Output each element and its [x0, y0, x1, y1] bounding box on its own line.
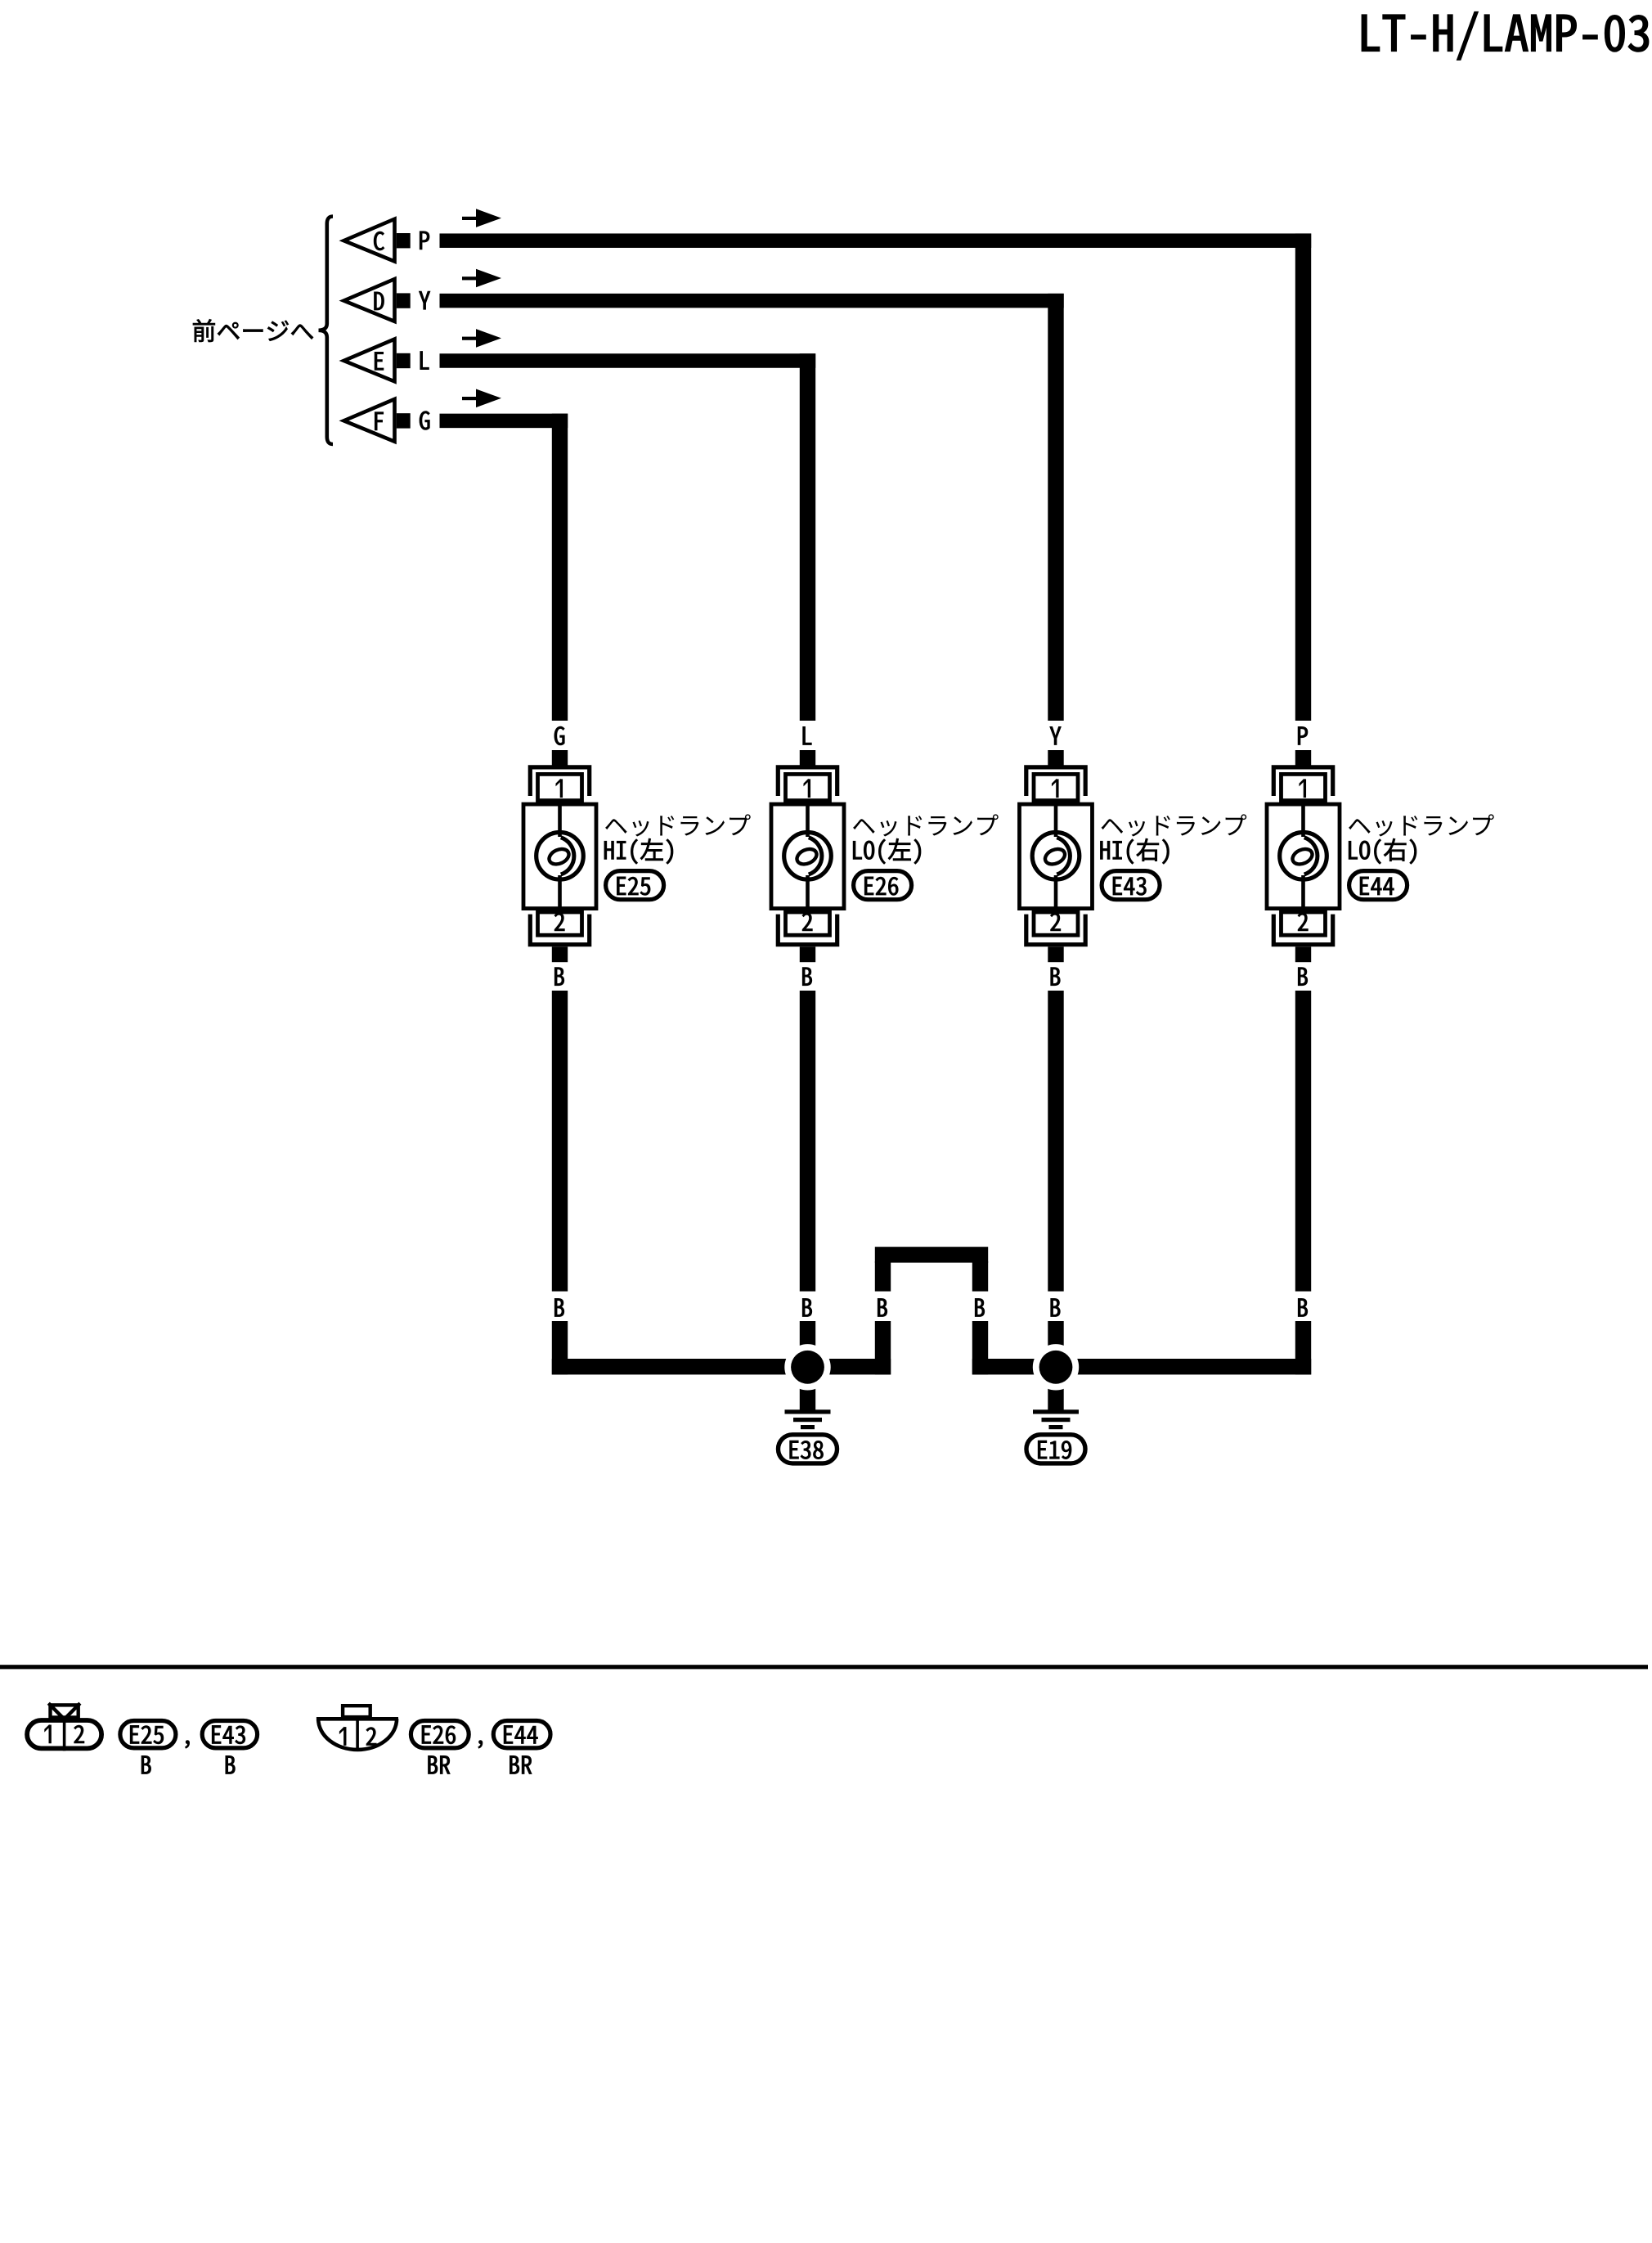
arrow marker row E: [462, 329, 501, 348]
label ヘッドランプ for E43: [1102, 814, 1247, 836]
label LO(右) for E44: [1349, 838, 1416, 864]
brace 前ページへ: [319, 217, 334, 445]
wire color label P at triangle: [420, 231, 429, 249]
wire column 3 below connector (B): [1048, 991, 1063, 1292]
arrow marker row C: [462, 209, 501, 227]
ground bus left segment: [552, 1359, 891, 1374]
wire G horizontal run: [440, 414, 568, 429]
wire L vertical drop to headlamp column: [800, 353, 815, 721]
B label at ground bus column 2: [802, 1298, 811, 1316]
connector E26 pin 2 stub: [800, 946, 815, 962]
junction dot E19 net: [1033, 1344, 1079, 1390]
label HI(右) for E43: [1100, 838, 1169, 864]
wire L horizontal run: [440, 353, 816, 368]
wire column 1 below connector (B): [552, 991, 568, 1292]
wire color label P above connector E44: [1298, 726, 1308, 744]
wire P horizontal run: [440, 233, 1312, 248]
legend label E25: [120, 1721, 176, 1748]
legend label E43: [202, 1721, 257, 1748]
wire color label L above connector E26: [803, 726, 812, 744]
triangle C stub to wire: [397, 233, 411, 248]
arrow marker row F: [462, 389, 501, 408]
connector E44 pin 2 stub: [1295, 946, 1311, 962]
wire G vertical drop to headlamp column: [552, 414, 568, 721]
wire column 2 below connector (B): [800, 991, 815, 1292]
B label below E43: [1051, 968, 1060, 986]
headlamp E26: [771, 767, 844, 945]
off-page connector triangle C: [339, 216, 397, 264]
headlamp E25: [523, 767, 596, 945]
connector label E44: [1349, 871, 1407, 900]
connector label E43: [1102, 871, 1160, 900]
legend B below E25: [141, 1755, 150, 1773]
wire Y horizontal run: [440, 294, 1064, 308]
triangle F stub to wire: [397, 413, 411, 428]
connector label E26: [854, 871, 912, 900]
off-page connector triangle F: [339, 396, 397, 444]
wire ground drop E19: [1048, 1376, 1063, 1412]
wire color label G above connector E25: [554, 726, 564, 745]
wire column 4 below connector (B): [1295, 991, 1311, 1292]
wire P vertical drop to headlamp column: [1295, 233, 1311, 721]
label 前ページへ: [193, 319, 313, 342]
B label below E25: [554, 968, 563, 986]
B label at ground bus column 3: [1051, 1298, 1060, 1316]
comma: [186, 1741, 190, 1749]
wire column 4 lower segment to ground bus: [1295, 1321, 1311, 1374]
bridge jog between ground nets: [875, 1247, 988, 1374]
legend connector icon E26/E44 (female 2-pin): [316, 1706, 398, 1750]
legend label E26: [411, 1721, 469, 1748]
wire column 3 lower segment to ground bus: [1048, 1321, 1063, 1374]
connector E43 pin 2 stub: [1048, 946, 1063, 962]
comma 2: [478, 1741, 483, 1749]
connector E26 pin 1 stub: [800, 750, 815, 766]
off-page connector triangle D: [339, 276, 397, 325]
title LT-H/LAMP-03: [1362, 12, 1648, 60]
B label at ground bus column 1: [554, 1298, 563, 1316]
legend connector icon E25/E43 (male 2-pin): [27, 1703, 101, 1751]
triangle D stub to wire: [397, 293, 411, 308]
legend B below E43: [226, 1755, 235, 1773]
B label below E44: [1298, 968, 1307, 986]
off-page connector triangle E: [339, 336, 397, 384]
headlamp E44: [1267, 767, 1340, 945]
B label at ground bus column 4: [1298, 1298, 1307, 1316]
wire column 2 lower segment to ground bus: [800, 1321, 815, 1374]
legend label E44: [493, 1721, 550, 1748]
ground symbol E19: [1033, 1409, 1079, 1429]
ground bus right segment: [972, 1359, 1311, 1374]
separator line: [0, 1665, 1648, 1669]
connector E43 pin 1 stub: [1048, 750, 1063, 766]
wire ground drop E38: [800, 1376, 815, 1412]
wire color label Y above connector E43: [1050, 726, 1062, 744]
legend BR below E44: [510, 1755, 532, 1773]
label LO(左) for E26: [853, 838, 921, 864]
triangle E stub to wire: [397, 353, 411, 368]
wire column 1 lower segment to ground bus: [552, 1321, 568, 1374]
label ヘッドランプ for E44: [1349, 814, 1494, 836]
label HI(左) for E25: [604, 838, 673, 864]
wire color label L at triangle: [420, 352, 429, 370]
wire color label G at triangle: [420, 411, 429, 430]
wire Y vertical drop to headlamp column: [1048, 294, 1063, 721]
B label below E26: [802, 968, 811, 986]
B label bridge leg at x=1079.5: [878, 1298, 887, 1316]
B label bridge leg at x=1198.5: [975, 1298, 984, 1316]
arrow marker row D: [462, 269, 501, 288]
headlamp E43: [1020, 767, 1093, 945]
label ヘッドランプ for E25: [605, 814, 751, 836]
connector E44 pin 1 stub: [1295, 750, 1311, 766]
connector E25 pin 1 stub: [552, 750, 568, 766]
ground connector label E38: [779, 1435, 837, 1463]
wire color label Y at triangle: [419, 291, 430, 309]
legend BR below E26: [429, 1755, 451, 1773]
label ヘッドランプ for E26: [853, 814, 999, 836]
ground connector label E19: [1026, 1435, 1085, 1463]
connector label E25: [606, 871, 664, 900]
connector E25 pin 2 stub: [552, 946, 568, 962]
ground symbol E38: [785, 1409, 831, 1429]
junction dot E38 net: [784, 1344, 830, 1390]
